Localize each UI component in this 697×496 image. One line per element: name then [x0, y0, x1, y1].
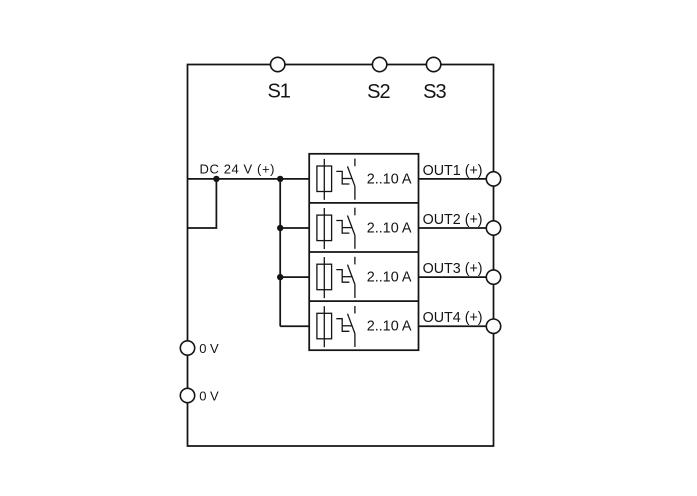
wire OUT1 output — [419, 178, 494, 180]
fuse F1 — [317, 159, 332, 200]
svg-text:S2: S2 — [367, 81, 390, 103]
node A junction dot — [213, 176, 219, 182]
breaker module box U1 — [309, 154, 418, 350]
svg-text:2..10 A: 2..10 A — [367, 319, 412, 335]
fuse F2 — [317, 208, 332, 249]
wire OUT2 output — [419, 227, 494, 229]
fuse F3 — [317, 257, 332, 298]
terminal S1 — [271, 57, 285, 71]
wire outer loop rectangle — [188, 65, 494, 447]
node C junction dot — [277, 225, 283, 231]
breaker switch contact Q1 — [336, 159, 355, 200]
breaker switch contact Q4 — [336, 306, 355, 347]
svg-text:0 V: 0 V — [199, 389, 219, 404]
svg-text:S3: S3 — [423, 81, 446, 103]
breaker switch contact Q2 — [336, 208, 355, 249]
svg-text:2..10 A: 2..10 A — [367, 171, 412, 187]
terminal OUT4 — [486, 319, 500, 333]
wire stub node A to left rail — [188, 179, 217, 228]
terminal 0V lower — [180, 388, 194, 402]
terminal OUT1 — [486, 172, 500, 186]
wire distribution bus vertical — [279, 179, 281, 326]
svg-text:2..10 A: 2..10 A — [367, 220, 412, 236]
wire branch to channel 2 — [280, 227, 309, 229]
terminal S3 — [426, 57, 440, 71]
wire branch to channel 4 — [280, 325, 309, 327]
node B junction dot — [277, 176, 283, 182]
terminal OUT2 — [486, 221, 500, 235]
svg-text:2..10 A: 2..10 A — [367, 270, 412, 286]
separator channel 2/3 — [309, 251, 418, 253]
wire DC 24 V (+) input rail — [188, 178, 310, 180]
wire OUT3 output — [419, 276, 494, 278]
svg-text:DC 24 V (+): DC 24 V (+) — [200, 161, 276, 176]
svg-text:OUT1 (+): OUT1 (+) — [423, 163, 483, 179]
node D junction dot — [277, 274, 283, 280]
svg-text:S1: S1 — [267, 80, 290, 102]
wire OUT4 output — [419, 325, 494, 327]
svg-text:OUT3 (+): OUT3 (+) — [423, 261, 483, 277]
breaker switch contact Q3 — [336, 257, 355, 298]
separator channel 3/4 — [309, 300, 418, 302]
svg-text:OUT4 (+): OUT4 (+) — [423, 310, 483, 326]
terminal OUT3 — [486, 270, 500, 284]
wire branch to channel 3 — [280, 276, 309, 278]
svg-text:0 V: 0 V — [199, 341, 219, 356]
fuse F4 — [317, 306, 332, 347]
terminal S2 — [372, 57, 386, 71]
separator channel 1/2 — [309, 202, 418, 204]
svg-text:OUT2 (+): OUT2 (+) — [423, 212, 483, 228]
terminal 0V upper — [180, 341, 194, 355]
